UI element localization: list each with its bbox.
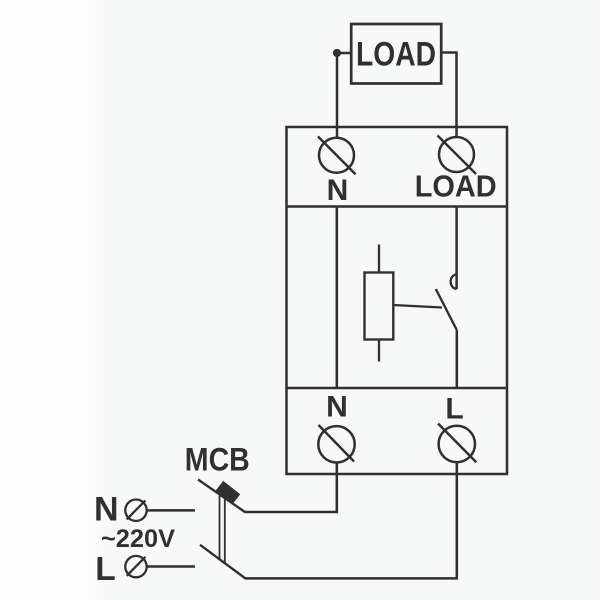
terminal screw L bottom [439, 426, 475, 462]
screw slash N bottom [319, 425, 355, 462]
wire N pass-through (middle section) [336, 207, 339, 389]
MCB breaker blade pole 2 [200, 545, 246, 579]
wire N bottom to MCB [245, 462, 337, 512]
svg-text:N: N [327, 174, 349, 207]
wire supply N to MCB [147, 509, 195, 512]
wire load box to LOAD terminal [441, 53, 457, 139]
svg-text:LOAD: LOAD [356, 36, 436, 74]
divider top section [287, 205, 508, 207]
terminal screw LOAD top [439, 137, 474, 172]
device outline [287, 127, 508, 474]
wire blade to L terminal [456, 330, 459, 388]
supply slash L [127, 557, 146, 576]
load box LOAD [351, 24, 441, 84]
switch blade (open) [436, 289, 457, 330]
screw slash L bottom [438, 424, 476, 463]
terminal screw N top [319, 138, 354, 173]
relay coil stub bottom [378, 340, 380, 362]
wire LOAD terminal to contact [455, 207, 458, 290]
svg-text:LOAD: LOAD [415, 169, 497, 204]
relay actuator link [393, 305, 442, 308]
svg-text:L: L [95, 551, 115, 588]
svg-text:~220V: ~220V [101, 525, 175, 553]
svg-text:L: L [445, 393, 463, 426]
supply terminal L [125, 556, 146, 577]
svg-text:N: N [326, 391, 348, 424]
wire supply L to MCB [147, 565, 195, 568]
MCB mechanical link [220, 496, 225, 564]
relay coil stub top [378, 245, 380, 273]
MCB breaker blade pole 1 [198, 480, 246, 513]
supply terminal N [125, 500, 146, 521]
wire dot to load box [337, 52, 353, 55]
screw slash N top [318, 137, 356, 175]
switch fixed contact hook [451, 275, 457, 289]
wire L bottom to MCB [245, 462, 457, 578]
divider bottom section [287, 387, 508, 389]
wire dot to N terminal [336, 53, 339, 139]
relay coil [365, 273, 394, 340]
MCB breaker body [215, 481, 240, 504]
screw slash LOAD top [438, 136, 477, 175]
svg-text:N: N [94, 491, 119, 529]
terminal screw N bottom [318, 426, 354, 462]
svg-text:MCB: MCB [185, 442, 250, 478]
junction dot (N node) [333, 49, 341, 57]
supply slash N [127, 500, 146, 519]
